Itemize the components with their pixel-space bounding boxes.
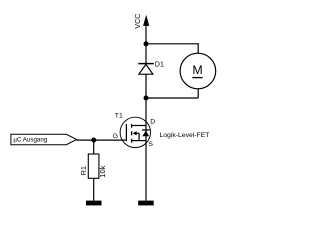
svg-text:Logik-Level-FET: Logik-Level-FET <box>160 132 210 139</box>
diode D1 triangle <box>139 64 153 74</box>
FET body diode triangle <box>142 131 149 137</box>
wire flag to gate <box>77 139 127 141</box>
FET source lead <box>132 140 146 142</box>
wire node A to motor branch (top horizontal) <box>146 43 198 45</box>
FET body lead <box>136 132 139 134</box>
FET body diode cathode bar <box>142 129 150 131</box>
wire node B to FET drain and down to ground (main vertical) <box>145 98 147 201</box>
svg-text:T1: T1 <box>115 113 123 120</box>
transistor T1 circle <box>120 117 150 147</box>
FET body-to-source tie <box>138 133 140 140</box>
wire resistor to ground <box>93 178 95 201</box>
svg-text:M: M <box>192 63 202 77</box>
wire diode anode to node B <box>145 74 147 98</box>
svg-text:µC Ausgang: µC Ausgang <box>13 136 47 143</box>
motor M underline <box>192 77 202 79</box>
FET drain lead <box>132 125 146 127</box>
wire node A to diode cathode <box>145 44 147 64</box>
wire node C to resistor <box>93 140 95 154</box>
svg-text:R1: R1 <box>79 166 88 175</box>
node A junction <box>144 41 149 46</box>
ground right <box>138 201 154 206</box>
FET channel tick middle <box>131 131 133 135</box>
FET body arrow <box>133 131 137 135</box>
resistor R1 body <box>88 154 99 178</box>
node C junction <box>91 138 96 143</box>
diode D1 cathode bar <box>138 63 154 65</box>
FET channel tick bottom <box>131 139 133 143</box>
FET gate bar <box>125 124 127 141</box>
net flag µC Ausgang <box>11 134 77 144</box>
power VCC arrow <box>143 15 149 26</box>
wire bottom horizontal to node B <box>146 97 198 99</box>
ground left <box>86 201 102 206</box>
svg-text:S: S <box>148 141 153 148</box>
wire motor branch down to motor <box>197 43 199 53</box>
svg-text:10k: 10k <box>98 165 107 177</box>
FET channel tick top <box>131 124 133 128</box>
svg-text:G: G <box>113 133 118 140</box>
svg-text:D1: D1 <box>155 61 164 68</box>
wire motor bottom down <box>197 89 199 98</box>
svg-text:VCC: VCC <box>133 14 142 29</box>
motor M1 circle <box>180 53 216 89</box>
svg-text:D: D <box>150 119 155 126</box>
wire VCC arrow to node A <box>145 26 147 44</box>
node B junction <box>144 96 149 101</box>
